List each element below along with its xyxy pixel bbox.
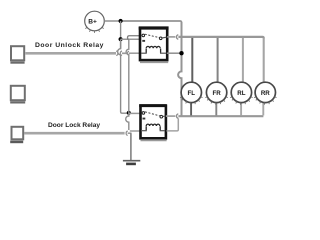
motor lead top RR (bus end drop) <box>263 38 265 83</box>
connector right of relay U2 <box>176 114 178 119</box>
svg-text:RL: RL <box>237 90 245 97</box>
connector pair at line1 crossing <box>116 51 118 56</box>
battery B+ <box>85 11 105 33</box>
svg-text:B+: B+ <box>88 18 97 25</box>
wire line1 vertical lower with connector detour, bend to line2 <box>118 39 128 113</box>
motor lead top FR <box>217 38 219 83</box>
wire relay1 NC contact <box>129 35 141 37</box>
wire coil U1 right to node <box>167 52 182 54</box>
wire line1 to relay1 arm <box>121 38 140 40</box>
wire relay U1 out to connector <box>167 36 175 38</box>
svg-text:RR: RR <box>261 90 270 97</box>
svg-text:FR: FR <box>212 90 221 97</box>
relay U1 switch contact out <box>159 37 162 40</box>
motor lead bottom FL <box>190 102 192 115</box>
wire relay U1 switch out internal <box>162 36 167 39</box>
relay U2 door lock relay box <box>139 106 167 141</box>
node junction dot line2 relay2 feed <box>127 111 131 115</box>
motor FR <box>205 82 227 104</box>
svg-text:Door Lock Relay: Door Lock Relay <box>48 122 100 129</box>
node junction dot coil feed <box>179 51 183 55</box>
control box door unlock <box>10 46 24 62</box>
wire relay U2 out to connector <box>166 115 176 117</box>
relay U2 switch arm (dashed) <box>145 112 160 116</box>
wire relay2 arm feed <box>129 112 141 114</box>
motor lead bottom RR <box>262 102 264 115</box>
connector arc line2 top <box>127 36 128 40</box>
motor lead bottom FR <box>215 102 217 115</box>
wire lock to ground stem <box>128 132 132 134</box>
relay U1 switch arm (dashed) <box>145 34 159 37</box>
connector right of relay U1 <box>176 35 178 40</box>
svg-text:FL: FL <box>188 90 196 97</box>
bus unlock (top) <box>178 37 263 39</box>
wire line1 vertical upper <box>120 21 122 49</box>
ground bar 2 <box>126 163 136 166</box>
ground bar 1 <box>123 160 140 162</box>
relay U2 coil <box>146 124 160 130</box>
motor RL <box>230 82 252 104</box>
relay U1 coil leads <box>141 52 147 54</box>
wire drop to relay U2 coil right <box>167 118 179 130</box>
relay U2 switch contact NC <box>142 112 145 115</box>
relay U1 arm anchor <box>142 40 145 42</box>
wire B+ to top junction <box>104 20 120 22</box>
vertical B+ feed wire <box>178 22 181 116</box>
motor lead bottom RL <box>240 102 242 115</box>
connector on door lock wire <box>126 131 128 135</box>
wire door lock control (thick) <box>24 132 125 135</box>
motor RR <box>254 82 276 104</box>
relay U1 switch contact NC <box>142 34 145 37</box>
svg-text:Door Unlock Relay: Door Unlock Relay <box>35 42 104 49</box>
node junction dot at B+ tee <box>119 19 123 23</box>
relay U1 coil <box>146 46 160 53</box>
wire unlock to relay1 coil <box>129 52 141 54</box>
wire top horizontal to right corner <box>121 21 182 23</box>
relay U2 switch contact out <box>160 115 163 118</box>
ground stem <box>130 133 132 160</box>
relay U2 coil leads <box>141 130 147 132</box>
bus lock (bottom) <box>178 115 263 117</box>
motor lead top FL <box>191 38 193 83</box>
motor FL <box>180 82 202 104</box>
node junction dot line1 to relay1 arm <box>119 37 123 41</box>
wire unlock between lines <box>122 52 126 54</box>
wire door unlock control (thick) <box>25 52 116 55</box>
wire line2 vertical <box>126 40 129 130</box>
connector at line2 crossing <box>127 51 129 55</box>
relay U1 door unlock relay box <box>139 28 169 62</box>
motor lead top RL <box>242 38 244 83</box>
control box middle <box>10 86 25 103</box>
wire relay2 coil left <box>130 130 141 132</box>
control box door lock <box>10 127 23 142</box>
relay U2 arm anchor <box>143 118 146 120</box>
wire relay U2 switch out internal <box>163 115 166 117</box>
